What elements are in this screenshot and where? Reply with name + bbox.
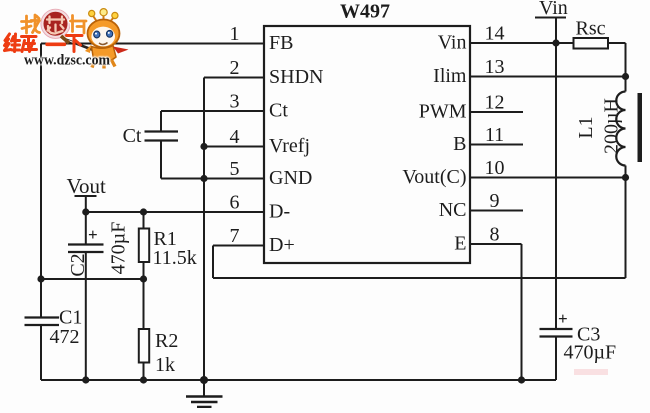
wire ground stub <box>203 380 205 396</box>
node dot Vrefj/ground vertical <box>200 143 207 150</box>
wire Ct branch lower <box>160 141 162 179</box>
wire pin11 B stub <box>470 144 523 146</box>
svg-text:FB: FB <box>269 32 293 54</box>
svg-text:472: 472 <box>50 326 80 348</box>
wire pin1 FB <box>41 43 264 45</box>
capacitor Ct plates <box>145 132 179 141</box>
watermark smudge <box>574 369 608 375</box>
wire left rail upper (FB net) <box>40 44 42 318</box>
node dot R1/R2 junction <box>140 275 147 282</box>
svg-text:1k: 1k <box>155 354 175 376</box>
node dot E bottom <box>518 376 525 383</box>
watermark char zhao <box>22 15 40 33</box>
svg-text:200µH: 200µH <box>601 98 623 154</box>
svg-text:+: + <box>88 225 98 244</box>
wire R1 bottom lead <box>143 262 145 279</box>
wire C2 bottom lead <box>85 252 87 380</box>
wire R2 bottom lead <box>143 363 145 381</box>
node dot Vin/pin14 <box>552 39 559 46</box>
svg-text:Vin: Vin <box>438 32 467 54</box>
node dot ground rail center <box>200 376 208 384</box>
node dot Ilim/right rail <box>622 73 629 80</box>
svg-text:2: 2 <box>230 57 240 79</box>
wire pin14 Vin <box>470 42 574 44</box>
svg-text:Ct: Ct <box>123 125 142 147</box>
svg-text:10: 10 <box>485 157 505 179</box>
wire pin9 NC stub <box>470 210 523 212</box>
wire pin7 D+ <box>213 245 264 247</box>
node Vin underline <box>535 17 566 19</box>
svg-text:L1: L1 <box>575 116 597 138</box>
wire pin12 PWM stub <box>470 111 523 113</box>
node dot R2 bottom <box>140 376 147 383</box>
wire R1 top lead <box>143 212 145 229</box>
svg-text:13: 13 <box>485 56 505 78</box>
resistor R1 <box>139 229 149 263</box>
svg-text:14: 14 <box>485 23 505 45</box>
wire R2 top lead <box>143 279 145 329</box>
wire left rail lower <box>40 325 42 380</box>
wire Ct branch upper <box>160 111 162 132</box>
svg-text:4: 4 <box>230 126 240 148</box>
watermark magnifier <box>41 9 97 51</box>
svg-text:www.dzsc.com: www.dzsc.com <box>24 53 110 69</box>
svg-text:9: 9 <box>490 190 500 212</box>
wire D+ net under IC <box>213 277 626 279</box>
svg-text:+: + <box>558 309 568 328</box>
wire pin3 Ct <box>161 110 264 112</box>
wire pin4 Vrefj <box>204 146 264 148</box>
svg-text:D-: D- <box>269 201 290 223</box>
wire R2 junction to left rail <box>41 278 144 280</box>
svg-text:8: 8 <box>490 224 500 246</box>
svg-text:Vin: Vin <box>539 0 568 19</box>
node dot left rail mid <box>37 275 44 282</box>
resistor Rsc <box>574 38 609 49</box>
capacitor C2 plates <box>68 245 104 253</box>
svg-text:NC: NC <box>439 199 467 221</box>
svg-text:470µF: 470µF <box>108 222 130 275</box>
wire Vin rail to C3 <box>555 43 557 329</box>
wire right rail upper <box>625 43 627 92</box>
svg-text:C2: C2 <box>67 253 89 276</box>
svg-text:Ilim: Ilim <box>433 65 467 87</box>
svg-text:PWM: PWM <box>419 101 467 123</box>
svg-text:11: 11 <box>485 124 504 146</box>
watermark magnifier handle <box>63 39 97 52</box>
node dot GND/ground vertical <box>200 175 207 182</box>
wire ground vertical <box>203 78 205 381</box>
svg-text:Rsc: Rsc <box>576 18 606 40</box>
wire pin7 vertical <box>212 246 214 279</box>
svg-text:6: 6 <box>230 192 240 214</box>
inductor L1 core bar <box>638 93 643 162</box>
inductor L1 coil <box>616 92 625 166</box>
wire right rail lower <box>625 166 627 279</box>
svg-text:Ct: Ct <box>269 100 288 122</box>
ground symbol <box>186 397 223 408</box>
svg-text:SHDN: SHDN <box>269 66 323 88</box>
watermark char pian <box>71 16 87 34</box>
watermark logo group <box>5 9 129 69</box>
capacitor C1 plates <box>25 318 60 326</box>
svg-text:Vout(C): Vout(C) <box>402 166 466 188</box>
wire C2 top lead <box>85 212 87 245</box>
svg-text:5: 5 <box>230 158 240 180</box>
node dot R1 top <box>140 208 147 215</box>
svg-text:1: 1 <box>230 23 240 45</box>
svg-text:GND: GND <box>269 167 312 189</box>
wire Rsc to right rail <box>608 42 626 44</box>
capacitor C3 plates <box>540 329 573 337</box>
svg-text:11.5k: 11.5k <box>153 247 197 269</box>
wire pin10 Vout(C) <box>470 177 626 179</box>
wire Vin rail stub <box>555 18 557 44</box>
resistor R2 <box>139 329 149 363</box>
svg-text:Vrefj: Vrefj <box>269 135 310 157</box>
svg-text:W497: W497 <box>340 1 390 23</box>
wire pin2 SHDN <box>204 77 264 79</box>
IC W497 body <box>264 26 470 263</box>
wire pin8 vertical <box>521 244 523 380</box>
svg-text:E: E <box>454 233 466 255</box>
svg-text:12: 12 <box>485 92 505 114</box>
node dot Vout/D- <box>82 208 89 215</box>
node Vout tick <box>75 196 97 212</box>
svg-text:470µF: 470µF <box>564 342 617 364</box>
wire pin5 GND <box>161 178 264 180</box>
watermark text weiku red <box>5 34 83 52</box>
node dot C2 bottom <box>82 376 89 383</box>
svg-text:3: 3 <box>230 91 240 113</box>
wire bottom ground rail <box>41 379 556 381</box>
watermark mascot <box>85 9 129 69</box>
wire pin13 Ilim <box>470 76 626 78</box>
svg-text:R2: R2 <box>155 330 178 352</box>
svg-text:Vout: Vout <box>67 174 106 198</box>
node dot Vout(C)/right rail <box>622 174 629 181</box>
wire pin6 D- <box>86 211 264 213</box>
svg-text:D+: D+ <box>269 234 295 256</box>
svg-text:7: 7 <box>230 225 240 247</box>
svg-text:B: B <box>453 133 466 155</box>
wire pin8 E <box>470 243 522 245</box>
wire C3 to bottom rail <box>555 337 557 381</box>
